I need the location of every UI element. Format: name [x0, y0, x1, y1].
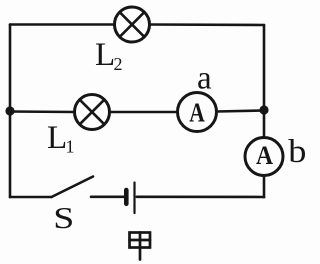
wire: right vertical lower [262, 176, 265, 198]
label jia (甲) [130, 233, 151, 260]
wire: battery to bottom right corner [137, 196, 264, 199]
wire: middle left of L1 [10, 110, 75, 113]
battery [126, 183, 134, 214]
svg-text:1: 1 [66, 137, 75, 157]
wire: middle right to junction [217, 111, 265, 112]
wire: top left of L2 [10, 23, 115, 26]
svg-text:A: A [256, 141, 273, 170]
ammeter a [178, 93, 217, 132]
lamp L2 [115, 7, 150, 42]
wire: bottom left to switch [10, 196, 52, 199]
node: left junction [5, 106, 14, 115]
switch S blade [52, 177, 94, 198]
svg-text:a: a [197, 61, 212, 97]
wire: top right of L2 [150, 23, 265, 26]
wire: switch contact to battery [91, 196, 124, 199]
wire: right vertical upper [263, 25, 266, 138]
wire: left vertical [9, 25, 12, 198]
svg-text:S: S [53, 201, 74, 235]
node: right junction [259, 105, 268, 114]
svg-text:L: L [95, 37, 115, 73]
svg-text:L: L [47, 120, 67, 156]
ammeter b [245, 138, 283, 176]
lamp L1 [75, 95, 110, 130]
svg-text:A: A [189, 98, 205, 128]
wire: middle between L1 and ammeter a [110, 111, 178, 114]
svg-text:2: 2 [114, 54, 123, 74]
svg-text:b: b [288, 133, 306, 170]
